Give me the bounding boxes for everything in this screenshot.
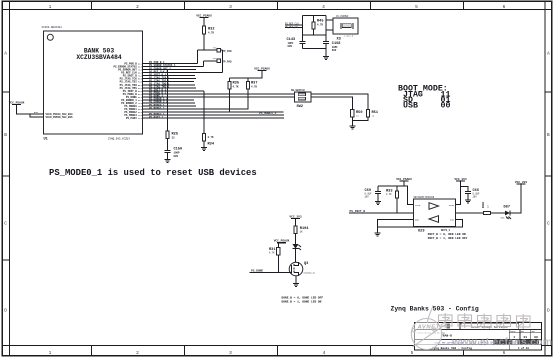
svg-text:XCZU3SBVA484: XCZU3SBVA484 [76,54,122,61]
svg-text:2: 2 [136,4,139,10]
svg-text:4.7K: 4.7K [208,136,215,139]
svg-text:PS_PADI_1: PS_PADI_1 [149,116,163,119]
svg-text:6: 6 [503,4,506,10]
svg-text:VCCB: VCCB [449,204,455,207]
svg-text:16V: 16V [365,195,370,198]
svg-text:1K: 1K [372,115,375,118]
svg-text:4.7K: 4.7K [317,24,324,27]
svg-text:00: 00 [441,102,451,111]
svg-text:NC7S_1: NC7S_1 [441,229,451,232]
svg-text:PS_MODE0_1 is used to reset US: PS_MODE0_1 is used to reset USB devices [49,168,257,178]
svg-text:X3: X3 [337,37,341,41]
svg-text:PS_PADI: PS_PADI [126,117,137,120]
svg-text:VCCA: VCCA [415,204,421,207]
svg-text:TRAN-D: TRAN-D [441,334,452,338]
svg-text:SN74AUP1T45DCKR: SN74AUP1T45DCKR [414,196,435,199]
svg-text:U1: U1 [44,138,48,142]
svg-text:33: 33 [487,205,490,208]
svg-text:RED LED: RED LED [501,216,511,219]
svg-text:TP_PAD: TP_PAD [223,50,233,53]
svg-text:50V: 50V [288,45,293,48]
svg-text:3: 3 [229,4,232,10]
svg-text:VCCO_PSMIO_503_B35: VCCO_PSMIO_503_B35 [46,116,74,119]
svg-text:3: 3 [229,350,232,356]
svg-text:1: 1 [49,350,52,356]
svg-text:D87: D87 [504,206,510,210]
svg-text:D: D [4,308,7,314]
svg-text:5: 5 [411,350,414,356]
svg-text:ZYNQ_503_XCZU3: ZYNQ_503_XCZU3 [108,137,130,140]
svg-text:2: 2 [136,350,139,356]
svg-text:DONE_B = 0, DONE LED OFF: DONE_B = 0, DONE LED OFF [282,296,324,299]
svg-text:A: A [547,51,550,57]
svg-text:INIT_B = 1, RED LED OFF: INIT_B = 1, RED LED OFF [428,237,468,240]
svg-text:1: 1 [49,4,52,10]
svg-text:PS_MODE1_1: PS_MODE1_1 [259,112,277,115]
svg-text:www.eLecfans.com: www.eLecfans.com [451,336,552,348]
svg-text:B: B [547,132,550,138]
svg-text:33.333MHZ: 33.333MHZ [336,15,349,18]
svg-text:R102: R102 [482,201,485,208]
svg-text:A: A [4,51,7,57]
svg-text:R34: R34 [208,143,215,147]
svg-text:4: 4 [322,4,325,10]
svg-text:USB: USB [403,102,418,111]
svg-text:4: 4 [323,350,326,356]
svg-text:RUM001L02: RUM001L02 [304,272,317,275]
svg-text:4.7K: 4.7K [386,193,392,196]
svg-text:C: C [4,221,7,227]
svg-text:2.5X2.0: 2.5X2.0 [344,35,354,38]
svg-text:4.7K: 4.7K [233,85,240,88]
svg-text:GND: GND [415,219,420,222]
svg-text:C: C [547,221,550,227]
svg-text:1K: 1K [300,231,303,234]
svg-text:1K: 1K [356,115,359,118]
svg-text:SW-SWITCH: SW-SWITCH [291,89,305,92]
svg-text:Q3: Q3 [304,262,308,266]
svg-text:4.7K: 4.7K [208,32,215,35]
svg-text:16V: 16V [473,195,478,198]
svg-text:SCALE: SCALE [510,330,515,333]
svg-text:Zynq Banks 503 - Config: Zynq Banks 503 - Config [391,306,479,313]
svg-text:50V: 50V [174,155,179,158]
svg-text:U29: U29 [418,229,424,233]
svg-text:4.7K: 4.7K [269,252,275,255]
svg-text:PS_INIT_B: PS_INIT_B [350,210,366,213]
svg-text:TP7: TP7 [213,57,218,60]
svg-text:5: 5 [415,4,418,10]
svg-text:J14: J14 [138,117,143,120]
svg-text:4.7K: 4.7K [251,85,258,88]
svg-text:B: B [4,132,7,138]
svg-text:TP_PAD: TP_PAD [223,61,233,64]
svg-text:D: D [547,308,550,314]
svg-text:33: 33 [172,137,176,140]
svg-text:XCZU3-SBVA484: XCZU3-SBVA484 [42,26,63,29]
svg-text:DONE_B = 1, DONE LED ON: DONE_B = 1, DONE LED ON [282,300,322,303]
svg-text:TP6: TP6 [213,47,218,50]
svg-text:PS_MODE1_1: PS_MODE1_1 [149,107,165,110]
svg-text:INIT_B = 0, RED LED ON: INIT_B = 0, RED LED ON [428,233,466,236]
svg-text:DIR: DIR [450,219,455,222]
svg-text:SW2: SW2 [297,105,303,109]
svg-text:50V: 50V [332,49,337,52]
